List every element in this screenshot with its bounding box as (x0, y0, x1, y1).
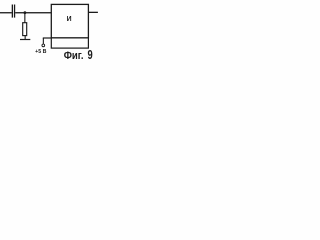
capacitor C1 plate left (12, 5, 13, 18)
wire resistor bottom stub (25, 36, 26, 39)
wire +5V vertical (43, 38, 44, 44)
svg-text:И: И (67, 16, 72, 23)
terminal bar below resistor (20, 39, 30, 40)
svg-text:+5 В: +5 В (35, 49, 47, 55)
node junction A (24, 11, 27, 14)
capacitor C1 plate right (14, 5, 15, 18)
wire capacitor to box (15, 12, 51, 13)
wire +5V horizontal (43, 37, 51, 38)
svg-text:9: 9 (88, 47, 93, 62)
logic gate U1 box (51, 4, 88, 38)
logic gate U1 lower compartment (51, 38, 88, 48)
wire left input (0, 12, 12, 13)
resistor R1 (23, 23, 27, 36)
wire junction down (24, 13, 25, 23)
svg-text:Фиг.: Фиг. (64, 50, 84, 62)
terminal +5V circle (42, 44, 45, 47)
wire output right (89, 12, 98, 13)
